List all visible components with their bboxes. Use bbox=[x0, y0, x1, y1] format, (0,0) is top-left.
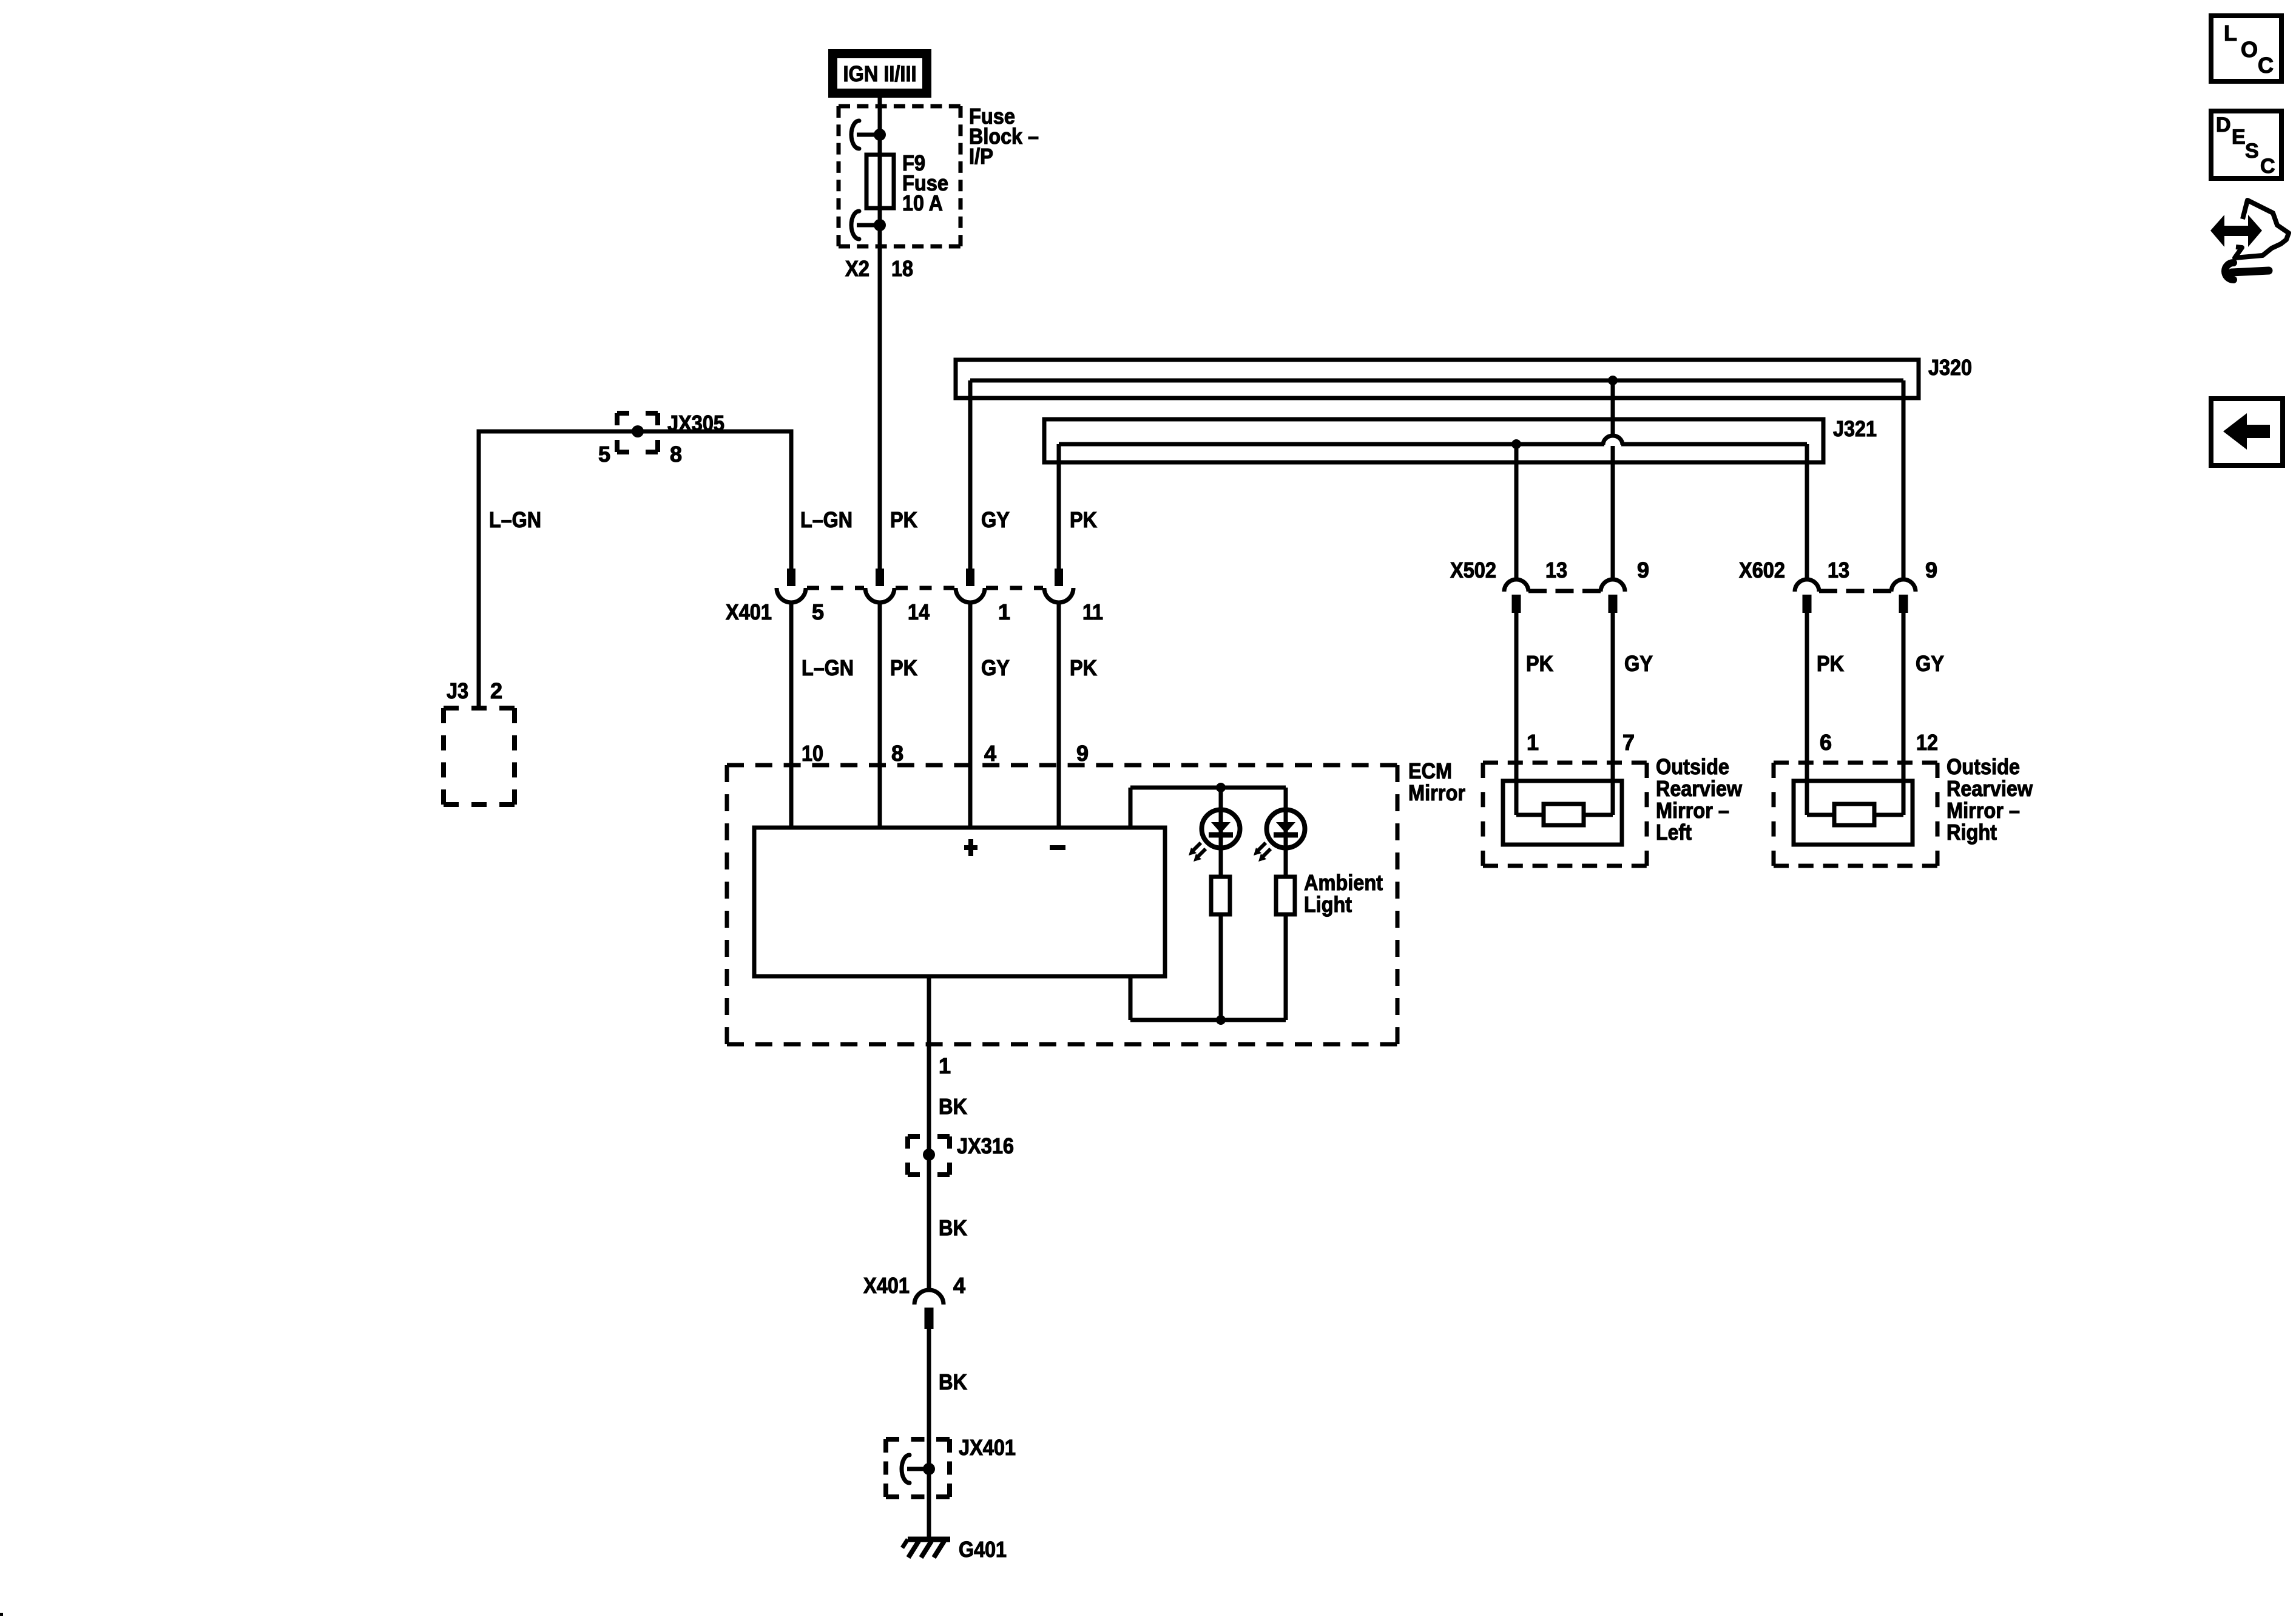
connector X401 pin 14 terminal bbox=[865, 569, 894, 603]
wire PK J321 to X401 pin 11 bbox=[1057, 444, 1061, 569]
svg-text:L: L bbox=[2224, 21, 2237, 46]
svg-text:PK: PK bbox=[1070, 507, 1097, 532]
splice pack J320 outline bbox=[956, 360, 1919, 398]
svg-text:X401: X401 bbox=[726, 599, 772, 624]
svg-text:PK: PK bbox=[1526, 651, 1553, 676]
svg-text:JX305: JX305 bbox=[667, 411, 724, 436]
wire L-GN JX305 to X401 pin 5 bbox=[789, 430, 794, 569]
svg-text:S: S bbox=[2245, 140, 2259, 163]
svg-text:Outside: Outside bbox=[1656, 754, 1729, 779]
svg-text:BK: BK bbox=[939, 1369, 967, 1394]
connector J3 dashed box bbox=[444, 708, 515, 805]
svg-text:12: 12 bbox=[1916, 730, 1938, 755]
wire BK ECM mirror pin 1 down bbox=[927, 976, 931, 1292]
svg-text:10: 10 bbox=[802, 741, 823, 766]
wire PK X602 pin 13 to right mirror pin 6 bbox=[1805, 613, 1809, 815]
svg-text:O: O bbox=[2241, 37, 2258, 62]
wire PK X502 pin 13 to left mirror pin 1 bbox=[1514, 613, 1519, 815]
connector X401 pin 4 terminal bbox=[914, 1290, 944, 1329]
ECM Mirror dashed box bbox=[727, 765, 1397, 1044]
ambient light loop bottom wire bbox=[1130, 1018, 1286, 1022]
junction dot JX305 bbox=[632, 425, 644, 437]
connector X602 pin 9 terminal bbox=[1891, 579, 1916, 613]
wire L-GN down to J3 bbox=[477, 430, 481, 709]
svg-text:PK: PK bbox=[890, 507, 917, 532]
svg-text:GY: GY bbox=[1624, 651, 1653, 676]
svg-text:Rearview: Rearview bbox=[1947, 776, 2033, 801]
wire PK X401 pin 11 to ECM mirror pin 9 bbox=[1057, 601, 1061, 828]
splice JX305 dashed box bbox=[617, 413, 658, 452]
splice pack J321 outline bbox=[1044, 419, 1823, 462]
connector X401 pin 11 terminal bbox=[1044, 569, 1073, 603]
page mark bottom-left bbox=[0, 1613, 3, 1616]
connector X602 pin 13 terminal bbox=[1795, 579, 1819, 613]
svg-text:Mirror –: Mirror – bbox=[1947, 798, 2020, 823]
svg-text:9: 9 bbox=[1925, 558, 1937, 582]
wire GY J320 down to X502 pin 9 with hop bbox=[1603, 380, 1622, 579]
fuse block terminal clip bottom with junction bbox=[851, 211, 886, 239]
Outside Rearview Mirror Right dashed box bbox=[1774, 763, 1937, 866]
wire GY X502 pin 9 to left mirror pin 7 bbox=[1611, 613, 1615, 815]
svg-text:J3: J3 bbox=[447, 678, 468, 703]
LED 2 branch wire bbox=[1284, 788, 1288, 1020]
svg-text:5: 5 bbox=[812, 599, 824, 624]
svg-text:BK: BK bbox=[939, 1094, 967, 1119]
connector X401 pin 1 terminal bbox=[956, 569, 985, 603]
svg-text:I/P: I/P bbox=[969, 144, 993, 169]
wire GY X602 pin 9 to right mirror pin 12 bbox=[1902, 613, 1906, 815]
LED 1 branch wire bbox=[1219, 788, 1223, 1020]
svg-text:PK: PK bbox=[890, 655, 917, 680]
svg-text:14: 14 bbox=[908, 599, 930, 624]
connector service icon (terminal outline) bbox=[2235, 200, 2289, 258]
svg-text:Mirror –: Mirror – bbox=[1656, 798, 1729, 823]
ground G401 symbol bbox=[902, 1539, 950, 1558]
splice pack J320 bus bar bbox=[970, 379, 1903, 383]
Outside Rearview Mirror Left dashed box bbox=[1483, 763, 1647, 866]
svg-text:9: 9 bbox=[1637, 558, 1649, 582]
junction dot on J320 bus bbox=[1608, 376, 1618, 385]
power label IGN II/III bbox=[833, 54, 927, 93]
svg-text:1: 1 bbox=[1527, 730, 1539, 755]
svg-text:C: C bbox=[2260, 155, 2275, 178]
svg-text:L–GN: L–GN bbox=[802, 655, 854, 680]
wire PK J321 down to X502 pin 13 bbox=[1514, 444, 1519, 579]
svg-text:11: 11 bbox=[1082, 599, 1103, 624]
svg-text:JX401: JX401 bbox=[959, 1435, 1016, 1460]
ECM mirror module body bbox=[754, 828, 1165, 976]
svg-text:IGN II/III: IGN II/III bbox=[843, 61, 917, 86]
svg-text:4: 4 bbox=[953, 1273, 965, 1298]
fuse block terminal clip top with junction bbox=[851, 121, 886, 149]
right mirror glass element with heater resistor bbox=[1794, 781, 1913, 845]
splice JX401 dashed box bbox=[886, 1439, 950, 1497]
label Outside Rearview Mirror - Left bbox=[1656, 754, 1743, 845]
svg-text:13: 13 bbox=[1545, 558, 1567, 582]
connector label X2 pin 18 bbox=[845, 256, 913, 281]
svg-text:7: 7 bbox=[1622, 730, 1635, 755]
svg-text:8: 8 bbox=[670, 442, 682, 467]
svg-text:10 A: 10 A bbox=[902, 191, 943, 215]
svg-text:18: 18 bbox=[891, 256, 913, 281]
connector service icon (wrench) bbox=[2225, 263, 2269, 280]
svg-text:PK: PK bbox=[1817, 651, 1844, 676]
wire GY J320 to X401 pin 1 bbox=[968, 380, 973, 569]
svg-text:Mirror: Mirror bbox=[1408, 780, 1465, 805]
svg-text:E: E bbox=[2232, 126, 2246, 149]
svg-text:L–GN: L–GN bbox=[800, 507, 853, 532]
svg-text:Ambient: Ambient bbox=[1304, 870, 1383, 895]
JX401 terminal clip with junction bbox=[902, 1455, 935, 1483]
wire PK fuse block to X401 pin 14 bbox=[878, 208, 882, 569]
svg-text:1: 1 bbox=[998, 599, 1010, 624]
svg-text:C: C bbox=[2258, 53, 2274, 78]
fuse F9 10 A bbox=[866, 155, 894, 208]
wire GY X401 pin 1 to ECM mirror pin 4 bbox=[968, 601, 973, 828]
photodiode LED 1 (ambient light sensor) bbox=[1189, 810, 1240, 862]
svg-text:Light: Light bbox=[1304, 892, 1352, 917]
polarity label + (mirror drive) bbox=[964, 839, 977, 856]
junction dot loop top bbox=[1216, 783, 1226, 792]
connector J3 labels bbox=[447, 678, 502, 703]
label Fuse Block - I/P bbox=[969, 104, 1039, 169]
svg-text:D: D bbox=[2216, 113, 2231, 137]
svg-text:J321: J321 bbox=[1833, 416, 1877, 441]
svg-text:PK: PK bbox=[1070, 655, 1097, 680]
ambient light loop left wire bbox=[1129, 788, 1133, 1020]
fuse block dashed box (Fuse Block - I/P) bbox=[839, 106, 961, 246]
resistor R1 (sensor 1) bbox=[1211, 877, 1230, 914]
svg-text:13: 13 bbox=[1828, 558, 1849, 582]
svg-text:8: 8 bbox=[891, 741, 903, 766]
splice JX316 dashed box bbox=[908, 1136, 950, 1175]
ambient light loop top wire bbox=[1130, 786, 1286, 790]
wire PK X401 pin 14 to ECM mirror pin 8 bbox=[878, 601, 882, 828]
photodiode LED 2 (ambient light sensor) bbox=[1254, 810, 1305, 862]
svg-text:GY: GY bbox=[981, 507, 1010, 532]
svg-text:Right: Right bbox=[1947, 820, 1997, 845]
connector X502 pin 13 terminal bbox=[1504, 579, 1528, 613]
wire L-GN horizontal through JX305 bbox=[479, 430, 791, 434]
label Outside Rearview Mirror - Right bbox=[1947, 754, 2033, 845]
svg-text:4: 4 bbox=[984, 741, 996, 766]
svg-text:Rearview: Rearview bbox=[1656, 776, 1743, 801]
svg-text:2: 2 bbox=[490, 678, 502, 703]
junction dot JX316 bbox=[923, 1149, 935, 1161]
svg-text:ECM: ECM bbox=[1408, 758, 1452, 783]
svg-text:X2: X2 bbox=[845, 256, 869, 281]
connector X502 dashed face line bbox=[1528, 589, 1601, 593]
svg-text:X602: X602 bbox=[1739, 558, 1785, 582]
svg-text:BK: BK bbox=[939, 1215, 967, 1240]
connector X401 dashed face line bbox=[807, 586, 1043, 590]
resistor R2 (sensor 2) bbox=[1276, 877, 1295, 914]
polarity label - (mirror drive) bbox=[1050, 845, 1065, 850]
wire BK X401 pin 4 to JX401 bbox=[927, 1326, 931, 1539]
svg-text:GY: GY bbox=[1916, 651, 1944, 676]
splice pack J321 bus bar bbox=[1059, 442, 1807, 447]
svg-text:5: 5 bbox=[598, 442, 610, 467]
label F9 Fuse 10 A bbox=[902, 150, 948, 215]
connector X502 pin 9 terminal bbox=[1601, 579, 1625, 613]
svg-text:Left: Left bbox=[1656, 820, 1692, 845]
svg-text:G401: G401 bbox=[959, 1537, 1007, 1562]
label ECM Mirror bbox=[1408, 758, 1465, 805]
wire L-GN X401 pin 5 to ECM mirror pin 10 bbox=[789, 601, 794, 828]
connector X602 dashed face line bbox=[1819, 589, 1891, 593]
connector X401 pin 5 terminal bbox=[777, 569, 806, 603]
wire PK J321 down to X602 pin 13 bbox=[1805, 444, 1809, 579]
DESC reference box bbox=[2211, 111, 2281, 178]
left mirror glass element with heater resistor bbox=[1503, 781, 1622, 845]
junction dot on J321 bus bbox=[1511, 439, 1521, 449]
svg-text:X401: X401 bbox=[863, 1273, 910, 1298]
svg-text:X502: X502 bbox=[1450, 558, 1496, 582]
svg-text:L–GN: L–GN bbox=[489, 507, 541, 532]
svg-text:JX316: JX316 bbox=[957, 1133, 1014, 1158]
svg-text:J320: J320 bbox=[1928, 355, 1972, 380]
junction dot loop bottom bbox=[1216, 1015, 1226, 1025]
LOC reference box bbox=[2211, 16, 2281, 81]
label Ambient Light bbox=[1304, 870, 1383, 917]
wire GY J320 down to X602 pin 9 bbox=[1902, 380, 1906, 579]
wire PK from IGN II/III into fuse block bbox=[878, 98, 882, 155]
svg-text:9: 9 bbox=[1076, 741, 1089, 766]
svg-text:GY: GY bbox=[981, 655, 1010, 680]
svg-text:1: 1 bbox=[939, 1053, 951, 1078]
svg-text:6: 6 bbox=[1820, 730, 1832, 755]
svg-text:Outside: Outside bbox=[1947, 754, 2020, 779]
back arrow box bbox=[2211, 399, 2283, 465]
connector service icon (double arrow) bbox=[2210, 215, 2262, 247]
